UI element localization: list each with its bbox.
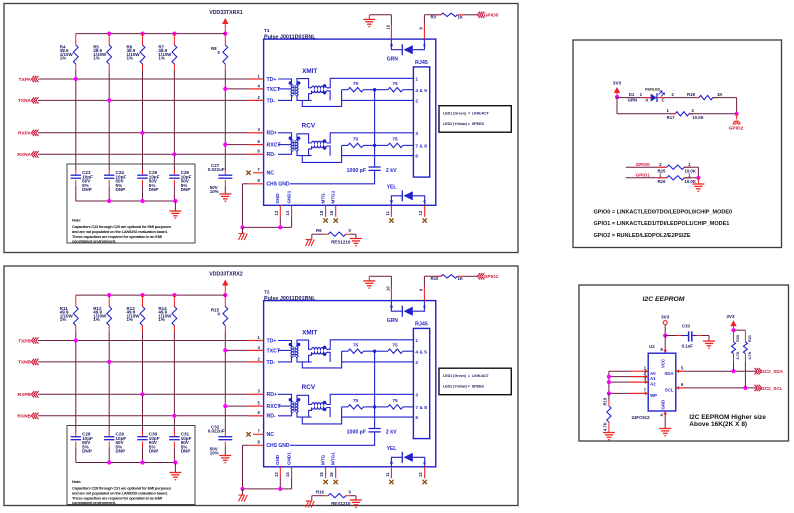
- resistor R10 1K: [431, 275, 478, 281]
- wire column: [142, 332, 144, 432]
- junction cap bus: [107, 199, 111, 203]
- resistor R14 49.9 1/10W 1%: [158, 295, 176, 332]
- svg-text:13: 13: [274, 210, 279, 215]
- svg-text:GND: GND: [275, 193, 280, 204]
- svg-text:3: 3: [415, 131, 418, 137]
- ground chassis hatch left: [239, 227, 248, 240]
- svg-text:DNP: DNP: [116, 449, 126, 454]
- svg-text:TD+: TD+: [267, 338, 277, 344]
- LED GRN: [387, 301, 427, 324]
- svg-text:1%: 1%: [127, 317, 134, 322]
- svg-text:C: C: [662, 98, 665, 103]
- pin 11: [385, 467, 394, 484]
- svg-text:1%: 1%: [93, 56, 100, 61]
- port GPIO1 (pulldown): [626, 172, 667, 177]
- pin 16 MTG1: [329, 190, 338, 222]
- svg-text:LED1 (Green) = LINK/ACT: LED1 (Green) = LINK/ACT: [443, 374, 490, 378]
- pin 2 TD-: [249, 356, 276, 366]
- svg-text:10%: 10%: [210, 189, 219, 194]
- pin 8 CHS GND: [249, 440, 290, 449]
- junction VCC: [663, 333, 667, 337]
- svg-text:GRN: GRN: [387, 56, 399, 62]
- resistor R25 10.0K: [657, 162, 698, 178]
- border frame I2C EEPROM block: [579, 285, 789, 441]
- junction: [74, 338, 78, 342]
- choke RCV common-mode: [312, 139, 327, 149]
- port RXPA: [18, 130, 249, 137]
- wire column: [75, 332, 77, 432]
- svg-text:R3: R3: [431, 14, 437, 19]
- svg-text:MTG1: MTG1: [331, 190, 336, 203]
- junction GPIO2: [735, 112, 739, 116]
- label XMIT: [302, 329, 317, 336]
- resistor R26 10.0K: [657, 172, 698, 184]
- wire center-tap column: [224, 332, 226, 432]
- svg-text:10.0K: 10.0K: [684, 179, 696, 184]
- port GPIO0 (pulldown): [626, 162, 667, 167]
- transformer XMIT primary/secondary: [278, 79, 300, 100]
- resistor 75 (RCV A): [342, 398, 375, 409]
- svg-text:12: 12: [418, 210, 423, 215]
- pin 4 TXCT: [249, 83, 281, 93]
- text EEPROM size note: [689, 414, 766, 428]
- transformer module T2 Pulse J0011D01BNL: [264, 290, 436, 467]
- junction VDD bus: [140, 293, 144, 297]
- pin 12: [418, 467, 427, 484]
- ground cap bus: [169, 463, 181, 480]
- svg-text:CHS GND: CHS GND: [266, 443, 289, 449]
- junction SDA: [731, 369, 735, 373]
- svg-text:A0: A0: [650, 371, 656, 376]
- junction VDD bus: [107, 31, 111, 35]
- wire RCV secondary top to choke: [297, 134, 312, 143]
- port TXPA: [19, 76, 249, 83]
- junction TXCT: [223, 348, 227, 352]
- connector RJ45: [413, 60, 429, 177]
- pin 1 A0: [630, 366, 648, 374]
- wire address pins: [609, 371, 630, 393]
- LED YEL: [387, 184, 428, 205]
- svg-text:TD-: TD-: [267, 98, 276, 104]
- note LED functions block1: [439, 106, 511, 133]
- svg-text:13: 13: [274, 472, 279, 477]
- LED GRN: [387, 39, 427, 62]
- svg-text:R17: R17: [667, 115, 675, 120]
- ground bars R9: [350, 496, 362, 508]
- resistor R11 49.9 1/10W 1%: [60, 295, 78, 332]
- svg-text:16: 16: [329, 210, 334, 215]
- svg-text:I2C2_SDA: I2C2_SDA: [761, 369, 784, 374]
- wire SDA: [676, 366, 757, 374]
- capacitor C26 10pF DNP: [169, 170, 191, 202]
- svg-text:RES1210: RES1210: [331, 501, 351, 506]
- svg-text:A: A: [645, 98, 648, 103]
- pin 4 TXCT: [249, 345, 281, 355]
- svg-text:10.0K: 10.0K: [692, 115, 704, 120]
- svg-text:12: 12: [418, 472, 423, 477]
- ground pulldowns: [692, 178, 704, 191]
- svg-text:YEL: YEL: [387, 184, 397, 190]
- svg-text:75: 75: [353, 81, 359, 87]
- resistor R7 49.9 1/10W 1%: [158, 34, 176, 71]
- wire SCL: [676, 382, 757, 390]
- svg-text:A: A: [422, 461, 427, 464]
- svg-text:I2C EEPROM: I2C EEPROM: [643, 296, 685, 303]
- svg-text:U2: U2: [649, 344, 655, 349]
- pin 5 RXCT: [249, 139, 282, 149]
- svg-text:RJ45: RJ45: [415, 60, 428, 66]
- pin 10 wire to chassis ground: [369, 276, 391, 300]
- svg-text:DNP: DNP: [149, 449, 159, 454]
- pin 8 CHS GND: [249, 178, 290, 187]
- ground bars R9: [350, 234, 362, 246]
- junction gnd bus B: [278, 225, 282, 229]
- pin 14 GND1: [285, 452, 292, 479]
- svg-text:24FC512: 24FC512: [632, 415, 651, 420]
- svg-text:A2: A2: [650, 382, 656, 387]
- svg-text:0.022uF: 0.022uF: [208, 428, 225, 433]
- svg-text:2 kV: 2 kV: [386, 430, 397, 436]
- svg-text:GRN: GRN: [628, 98, 638, 103]
- ground C27: [219, 447, 231, 462]
- svg-text:LED2 (Yellow) = SPEED: LED2 (Yellow) = SPEED: [443, 385, 484, 389]
- svg-text:RXPA: RXPA: [18, 131, 32, 137]
- wire RCV bottom line: [297, 407, 413, 424]
- svg-text:0.022uF: 0.022uF: [208, 167, 225, 172]
- svg-text:4 & 5: 4 & 5: [415, 88, 427, 94]
- svg-text:1%: 1%: [60, 317, 67, 322]
- svg-text:RXCT: RXCT: [267, 404, 282, 410]
- svg-text:MTG1: MTG1: [331, 452, 336, 465]
- svg-text:RD-: RD-: [267, 152, 276, 158]
- svg-text:RCV: RCV: [302, 384, 316, 391]
- wire choke top to RJ45 pin3: [327, 394, 414, 404]
- svg-text:1%: 1%: [60, 56, 67, 61]
- pin 1 TD+: [249, 73, 277, 83]
- svg-text:3V3: 3V3: [726, 314, 735, 319]
- power flag VDD33TXRX1: [209, 10, 243, 34]
- svg-text:1: 1: [415, 76, 418, 82]
- svg-text:3: 3: [415, 393, 418, 399]
- resistor 75 (XMIT A): [342, 343, 375, 354]
- svg-text:75: 75: [353, 343, 359, 349]
- svg-text:Above 16K(2K X 8): Above 16K(2K X 8): [689, 421, 747, 428]
- svg-text:TXPA: TXPA: [19, 77, 32, 83]
- svg-text:7 & 8: 7 & 8: [415, 144, 427, 150]
- svg-text:TXPB: TXPB: [18, 338, 31, 344]
- svg-text:TD-: TD-: [267, 360, 276, 366]
- svg-text:XMIT: XMIT: [302, 329, 317, 336]
- pin 2 A1: [630, 371, 648, 378]
- svg-text:75: 75: [392, 343, 398, 349]
- port GPIO1: [477, 273, 498, 280]
- svg-text:T2: T2: [264, 290, 270, 296]
- svg-text:R21: R21: [748, 335, 752, 342]
- svg-text:GPIO2 = RUNLED/LEDPOL2/E2PSIZE: GPIO2 = RUNLED/LEDPOL2/E2PSIZE: [594, 233, 691, 239]
- svg-text:RCV: RCV: [302, 123, 316, 130]
- svg-text:4.7K: 4.7K: [736, 351, 740, 359]
- svg-text:75: 75: [392, 398, 398, 404]
- svg-text:A: A: [422, 305, 427, 308]
- resistor R15 0 ohm: [211, 295, 228, 332]
- junction A2: [607, 380, 611, 384]
- port GPIO2: [729, 114, 744, 132]
- junction VDD bus: [140, 31, 144, 35]
- svg-text:CHS GND: CHS GND: [266, 182, 289, 188]
- junction: [140, 392, 144, 396]
- svg-text:C: C: [389, 461, 394, 464]
- ground chassis top: [363, 276, 375, 288]
- junction cap bus: [140, 460, 144, 464]
- svg-text:RUNLED: RUNLED: [645, 88, 660, 92]
- wire XMIT secondary top to choke: [297, 340, 312, 349]
- svg-text:2 kV: 2 kV: [386, 168, 397, 174]
- resistor 75 (RCV B): [375, 136, 414, 147]
- svg-text:TXCT: TXCT: [267, 348, 281, 354]
- junction on VDD bus: [223, 31, 227, 35]
- label RCV: [302, 384, 316, 391]
- junction pull-up top: [731, 328, 735, 332]
- pin 5 RXCT: [249, 401, 282, 411]
- pin 6 RD-: [249, 410, 276, 420]
- wire CHS GND to ground bus: [243, 445, 292, 489]
- pin 7 WP: [630, 388, 648, 396]
- svg-text:DNP: DNP: [181, 187, 191, 192]
- resistor R6 49.9 1/10W 1%: [127, 34, 145, 71]
- svg-text:1: 1: [415, 338, 418, 344]
- capacitor C28 10pF DNP: [71, 431, 93, 463]
- svg-text:XMIT: XMIT: [302, 68, 317, 75]
- connector RJ45: [413, 322, 429, 439]
- wire column: [108, 332, 110, 432]
- ground chassis hatch R9: [306, 234, 315, 246]
- pin 14 GND1: [285, 190, 292, 217]
- border frame block 1: [4, 4, 518, 253]
- transformer module T1 Pulse J0011D01BNL: [264, 28, 436, 205]
- choke XMIT common-mode: [312, 84, 327, 94]
- junction RXCT: [223, 404, 227, 408]
- port I2C2_SCL: [755, 385, 783, 391]
- svg-text:R8: R8: [211, 46, 217, 51]
- svg-text:WP: WP: [650, 393, 657, 398]
- port GPIO0: [477, 12, 498, 19]
- svg-text:RXNB: RXNB: [17, 414, 31, 420]
- capacitor C27 0.022uF: [208, 163, 233, 194]
- port TXNB: [18, 359, 249, 366]
- resistor R8 0 ohm: [211, 34, 228, 71]
- resistor R3 1K: [431, 13, 478, 19]
- pin 15 MTG: [319, 193, 328, 223]
- wire RXCT link: [225, 405, 249, 407]
- svg-text:1%: 1%: [127, 56, 134, 61]
- wire cap ground bus: [76, 200, 176, 202]
- wire RCV bottom line: [297, 145, 413, 162]
- border frame block 2: [4, 266, 518, 506]
- resistor R18 1K: [687, 92, 737, 114]
- wire choke top to RJ45 pin1: [327, 78, 414, 88]
- svg-text:2: 2: [415, 99, 418, 105]
- capacitor C32 0.022uF: [208, 424, 233, 455]
- svg-text:7 & 8: 7 & 8: [415, 405, 427, 411]
- junction gnd bus A: [240, 487, 244, 491]
- svg-text:A: A: [422, 44, 427, 47]
- label RCV: [302, 123, 316, 130]
- capacitor C30 10pF DNP: [137, 431, 159, 463]
- pin 6 RD-: [249, 149, 276, 159]
- resistor R16 RES1210 0 ohm: [312, 489, 356, 506]
- resistor R12 49.9 1/10W 1%: [93, 295, 111, 332]
- svg-text:75: 75: [392, 81, 398, 87]
- power 3V3 (RUNLED): [613, 80, 622, 97]
- port TXNA: [18, 97, 249, 104]
- junction RCV 75: [373, 405, 376, 408]
- svg-text:1K: 1K: [717, 92, 723, 97]
- wire RCV secondary top to choke: [297, 395, 312, 404]
- port RXNB: [17, 413, 248, 420]
- wire pull-up bridge: [734, 329, 746, 331]
- svg-text:2: 2: [415, 360, 418, 366]
- svg-text:RD+: RD+: [267, 131, 278, 137]
- svg-text:TXNB: TXNB: [18, 360, 32, 366]
- label XMIT: [302, 68, 317, 75]
- resistor 75 (XMIT B): [375, 81, 414, 92]
- resistor 75 (RCV B): [375, 398, 414, 409]
- svg-text:4.7K: 4.7K: [748, 351, 752, 359]
- svg-text:GND1: GND1: [286, 190, 291, 203]
- wire VDD bus: [76, 33, 226, 35]
- capacitor C24 10pF DNP: [104, 170, 126, 202]
- resistor R20 4.7K (SDA pull-up): [732, 330, 741, 371]
- svg-text:6: 6: [415, 154, 418, 160]
- svg-text:GPIO0: GPIO0: [484, 13, 499, 19]
- wire XMIT bottom line: [297, 90, 413, 107]
- junction: [172, 414, 176, 418]
- resistor R5 49.9 1/10W 1%: [93, 34, 111, 71]
- svg-text:LED2 (Yellow) = SPEED: LED2 (Yellow) = SPEED: [443, 122, 484, 126]
- svg-text:DNP: DNP: [116, 187, 126, 192]
- port RXPB: [18, 391, 249, 398]
- ground chassis hatch left: [239, 489, 248, 502]
- power 3V3 (pull-ups): [726, 314, 736, 330]
- svg-text:C: C: [389, 44, 394, 47]
- svg-text:RXNA: RXNA: [17, 152, 31, 158]
- pin 2 TD-: [249, 95, 276, 105]
- svg-text:3V3: 3V3: [613, 80, 622, 85]
- svg-text:RXPB: RXPB: [18, 392, 32, 398]
- junction VDD bus: [172, 293, 176, 297]
- resistor R4 49.9 1/10W 1%: [60, 34, 78, 71]
- ground cap bus: [169, 201, 181, 218]
- svg-text:TD+: TD+: [267, 77, 277, 83]
- svg-text:YEL: YEL: [387, 446, 397, 452]
- resistor R17 10.0K: [617, 97, 737, 120]
- svg-text:LED1 (Green) = LINK/ACT: LED1 (Green) = LINK/ACT: [443, 112, 490, 116]
- svg-text:I2C EEPROM Higher size: I2C EEPROM Higher size: [689, 414, 766, 421]
- svg-text:A: A: [422, 200, 427, 203]
- pin 7 NC: [246, 429, 274, 438]
- pin 13 GND: [274, 193, 281, 217]
- capacitor C25 10pF DNP: [137, 170, 159, 202]
- junction gnd bus A: [240, 225, 244, 229]
- svg-text:1000 pF: 1000 pF: [347, 168, 366, 174]
- svg-text:constrained environment.: constrained environment.: [72, 500, 116, 505]
- resistor R21 4.7K (SCL pull-up): [743, 330, 752, 388]
- wire center-tap vertical: [374, 351, 376, 428]
- pin 9 wire: [419, 15, 441, 39]
- svg-text:10: 10: [386, 24, 391, 29]
- junction WP: [607, 391, 611, 395]
- svg-text:DNP: DNP: [82, 449, 92, 454]
- svg-text:R19: R19: [603, 397, 608, 405]
- svg-text:R26: R26: [657, 179, 665, 184]
- junction: [107, 360, 111, 364]
- junction: [140, 131, 144, 135]
- wire CHS GND to ground bus: [243, 184, 292, 228]
- svg-text:NC: NC: [267, 171, 275, 177]
- LED YEL: [387, 446, 428, 467]
- pin 11: [385, 205, 394, 222]
- pin 3 RD+: [249, 127, 277, 137]
- IC U2 24FC512: [632, 336, 676, 421]
- svg-text:MTG: MTG: [320, 454, 325, 465]
- capacitor C33 0.1uF: [665, 323, 709, 348]
- wire column: [173, 332, 175, 432]
- svg-text:14: 14: [285, 210, 290, 215]
- wire column: [75, 71, 77, 171]
- pin 1 TD+: [249, 335, 277, 345]
- svg-text:GND: GND: [661, 400, 666, 410]
- junction: [172, 152, 176, 156]
- svg-text:SCL: SCL: [665, 388, 674, 393]
- transformer RCV primary/secondary: [278, 133, 300, 155]
- svg-text:DNP: DNP: [181, 449, 191, 454]
- transformer XMIT primary/secondary: [278, 341, 300, 362]
- resistor 75 (XMIT A): [342, 81, 375, 92]
- svg-text:A1: A1: [650, 376, 656, 381]
- wire RXCT link: [225, 144, 249, 146]
- resistor R13 49.9 1/10W 1%: [127, 295, 145, 332]
- svg-text:GND1: GND1: [286, 452, 291, 465]
- junction XMIT 75: [373, 88, 376, 91]
- svg-text:GPIO2: GPIO2: [729, 125, 744, 131]
- svg-text:C: C: [389, 305, 394, 308]
- capacitor C23 10pF DNP: [71, 170, 93, 202]
- resistor 75 (RCV A): [342, 136, 375, 147]
- pin 3 RD+: [249, 389, 277, 399]
- pin 15 MTG: [319, 454, 328, 484]
- wire TXCT link: [225, 88, 249, 90]
- svg-text:RJ45: RJ45: [415, 322, 428, 328]
- capacitor C31 10pF DNP: [169, 431, 191, 463]
- svg-text:GPIO1: GPIO1: [484, 274, 499, 280]
- svg-text:11: 11: [385, 472, 390, 477]
- svg-text:R16: R16: [316, 489, 324, 494]
- pin 4 GND: [660, 411, 667, 429]
- svg-text:75: 75: [353, 398, 359, 404]
- svg-text:R20: R20: [736, 335, 740, 342]
- svg-text:16: 16: [329, 472, 334, 477]
- svg-text:SDA: SDA: [664, 371, 673, 376]
- junction pulldown: [696, 176, 700, 180]
- junction cap bus: [140, 199, 144, 203]
- svg-text:6: 6: [415, 415, 418, 421]
- junction on VDD bus: [223, 293, 227, 297]
- svg-text:VCC: VCC: [661, 359, 666, 368]
- svg-text:NC: NC: [267, 432, 275, 438]
- junction RCV 75: [373, 144, 376, 147]
- pin 10 wire to chassis ground: [369, 15, 391, 39]
- wire column: [142, 71, 144, 171]
